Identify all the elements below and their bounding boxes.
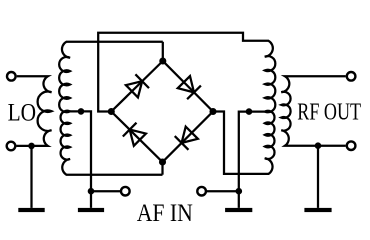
svg-text:LO: LO	[8, 98, 36, 127]
svg-text:RF OUT: RF OUT	[297, 98, 361, 125]
svg-text:AF IN: AF IN	[137, 200, 193, 227]
